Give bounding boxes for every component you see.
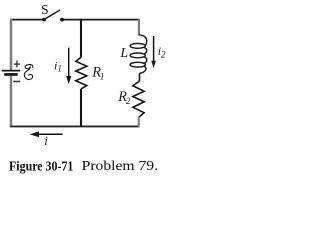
svg-text:L: L [119, 46, 128, 61]
battery top plate (long, +) [2, 70, 21, 72]
svg-text:S: S [41, 2, 49, 17]
wire top horizontal right segment [62, 19, 139, 21]
switch S left contact dot [42, 18, 46, 22]
svg-text:i2: i2 [158, 44, 166, 60]
resistor R2 zigzag [133, 81, 144, 117]
battery - sign [13, 81, 20, 83]
wire right vertical above inductor [138, 19, 140, 36]
wire right vertical below R2 [138, 117, 140, 127]
battery + sign [14, 60, 20, 67]
wire left vertical lower [10, 76, 13, 127]
switch S right contact dot [60, 18, 64, 22]
current arrow i1 [68, 48, 70, 77]
wire right vertical between coil and R2 [139, 73, 141, 81]
battery bottom plate (short, thick, -) [4, 73, 17, 76]
svg-text:i1: i1 [54, 58, 62, 73]
svg-text:Figure 30-71: Figure 30-71 [9, 159, 73, 174]
switch S blade [44, 10, 60, 20]
current arrow i2 [153, 36, 155, 62]
current arrow i (bottom) [37, 133, 63, 135]
svg-text:i: i [44, 133, 48, 148]
wire middle branch upper [80, 19, 82, 58]
wire left vertical upper (battery + side) [10, 19, 13, 70]
wire bottom horizontal [10, 125, 139, 127]
inductor L coil [130, 35, 147, 74]
wire top horizontal left segment [10, 19, 44, 21]
svg-text:R1: R1 [91, 64, 104, 81]
resistor R1 zigzag [76, 57, 87, 89]
EMF script-E label [24, 64, 32, 79]
svg-text:R2: R2 [117, 89, 131, 106]
svg-text:Problem 79.: Problem 79. [82, 158, 158, 173]
wire middle branch lower [80, 89, 82, 126]
